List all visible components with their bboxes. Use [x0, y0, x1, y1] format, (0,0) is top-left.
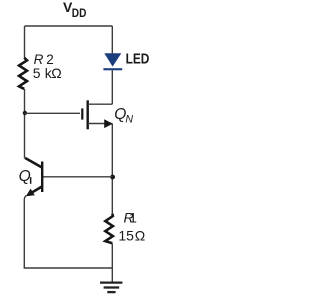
svg-text:Q: Q — [19, 168, 31, 185]
wire bottom rail — [24, 267, 113, 269]
wire emitter down — [24, 196, 26, 268]
wire gate — [25, 112, 81, 114]
wire right rail top — [111, 26, 113, 53]
LED cathode bar — [103, 68, 122, 70]
resistor R2 — [19, 58, 27, 89]
svg-text:1: 1 — [129, 210, 137, 226]
wire top rail VDD — [25, 25, 113, 27]
wire left rail upper — [24, 26, 26, 58]
node junction base — [110, 175, 115, 180]
wire base QI — [43, 176, 112, 178]
transistor QI emitter arrow — [26, 189, 35, 197]
svg-text:15: 15 — [118, 228, 134, 244]
resistor R1 — [105, 214, 113, 244]
node junction gate — [23, 111, 27, 115]
wire LED to drain — [111, 70, 113, 104]
svg-text:DD: DD — [72, 8, 87, 20]
transistor QN source arrow — [104, 119, 113, 128]
ground — [100, 281, 122, 283]
wire left rail mid — [24, 89, 26, 159]
LED diode triangle — [104, 53, 121, 66]
svg-text:5: 5 — [33, 65, 41, 81]
svg-text:N: N — [125, 113, 133, 125]
wire right rail source to R1 — [111, 124, 113, 214]
transistor QI base bar — [41, 162, 43, 193]
transistor QI collector — [25, 158, 42, 168]
svg-text:LED: LED — [126, 52, 150, 68]
svg-text:Ω: Ω — [135, 228, 145, 244]
wire drain QN — [88, 103, 112, 105]
transistor QN channel bar — [87, 100, 89, 129]
transistor QN gate bar — [81, 108, 83, 119]
wire R1 to ground — [111, 244, 113, 282]
svg-text:Ω: Ω — [51, 65, 61, 81]
wire source QN — [88, 123, 112, 125]
transistor QI emitter — [32, 187, 43, 193]
